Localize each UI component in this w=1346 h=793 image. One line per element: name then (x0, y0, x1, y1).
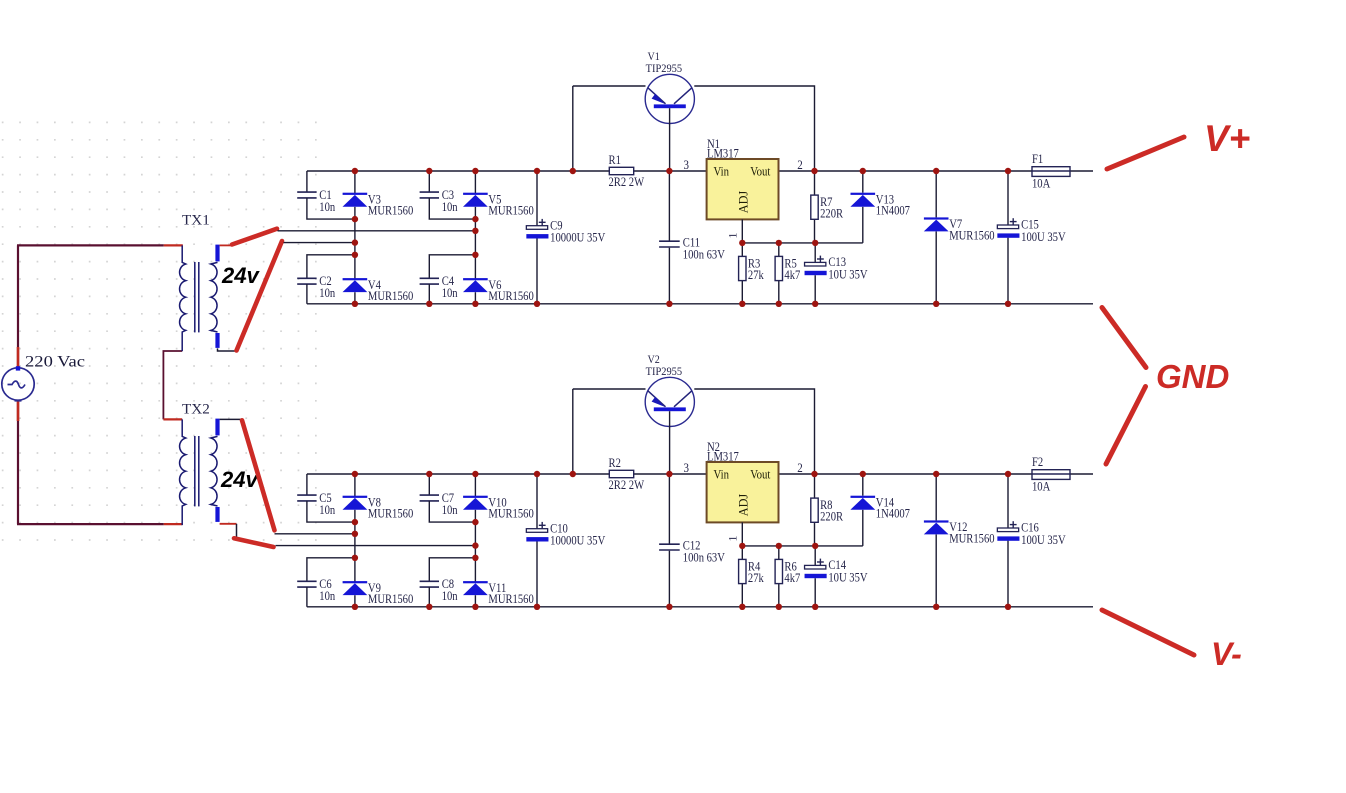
svg-text:10000U 35V: 10000U 35V (550, 534, 605, 548)
svg-text:27k: 27k (748, 571, 765, 585)
wire C2 bottom lead (306, 284, 308, 304)
annotation stroke TX1 top to upper wire (232, 229, 277, 245)
svg-text:100n 63V: 100n 63V (683, 550, 725, 564)
wire TX1-TX2 primary interconnect (163, 351, 182, 419)
svg-text:F2: F2 (1032, 455, 1043, 469)
resistor R6 4k7 (775, 559, 800, 585)
svg-text:10n: 10n (319, 503, 335, 517)
transistor V2 TIP2955 (645, 353, 694, 474)
wire red segment above AC source (17, 347, 20, 368)
wire C8 top lead from bridge (429, 558, 475, 582)
svg-text:10n: 10n (442, 286, 458, 300)
svg-text:10000U 35V: 10000U 35V (550, 231, 605, 245)
svg-text:LM317: LM317 (707, 449, 739, 463)
diode V8 MUR1560 (343, 496, 414, 521)
annotation stroke to V- (1102, 610, 1194, 655)
svg-text:10A: 10A (1032, 177, 1050, 191)
capacitor C11 100n 63V (659, 236, 725, 262)
wire red segment at TX1 primary input (164, 244, 183, 246)
wire bottom rail channel 1 (307, 303, 1093, 305)
svg-text:Vout: Vout (750, 467, 771, 481)
diode V10 MUR1560 (463, 496, 534, 521)
wire red segment at TX2 primary input (163, 418, 182, 420)
diode V3 MUR1560 (343, 193, 414, 218)
svg-text:10A: 10A (1032, 480, 1050, 494)
capacitor C2 10n (297, 274, 335, 300)
wire C5 top lead (306, 474, 308, 495)
svg-text:10n: 10n (442, 589, 458, 603)
svg-text:TIP2955: TIP2955 (646, 61, 683, 75)
resistor R5 4k7 (775, 256, 800, 282)
svg-text:220 Vac: 220 Vac (25, 354, 85, 371)
fuse F1 10A (1032, 152, 1070, 190)
wire V13 branch vertical (862, 207, 864, 243)
capacitor C4 10n (420, 274, 458, 300)
wire bridge column right channel 1 (474, 171, 476, 194)
svg-text:TIP2955: TIP2955 (646, 364, 683, 378)
wire R8 leads (814, 474, 816, 498)
svg-text:MUR1560: MUR1560 (368, 592, 413, 606)
wire base lead V2 (669, 411, 671, 474)
annotation stroke GND lower (1106, 387, 1146, 465)
svg-text:2: 2 (797, 158, 803, 172)
capacitor C12 100n 63V (659, 539, 725, 565)
regulator N1 LM317 (684, 137, 803, 239)
wire TX2 secondary top stub (220, 418, 241, 420)
svg-text:100U 35V: 100U 35V (1021, 533, 1066, 547)
wire V14 top lead (862, 474, 864, 496)
wire emitter branch horizontal channel 2 (573, 388, 646, 390)
wire C5 bottom lead to bridge (307, 501, 355, 522)
wire C6 top lead from bridge (307, 558, 355, 582)
wire bridge input upper channel 1 (278, 230, 476, 232)
wire TX1 secondary bottom stub (218, 348, 237, 351)
svg-text:1N4007: 1N4007 (876, 507, 910, 521)
svg-text:24v: 24v (221, 263, 260, 288)
svg-text:100U 35V: 100U 35V (1021, 230, 1066, 244)
secondary lead top of TX1 (blue) (215, 245, 219, 262)
wire TX1 secondary top stub (red) (220, 244, 232, 246)
svg-text:Vin: Vin (714, 164, 730, 178)
wire C1 top lead (306, 171, 308, 192)
wire C7 top lead (428, 474, 430, 495)
capacitor C14 10U 35V (805, 558, 868, 584)
wire C7 bottom lead to bridge (429, 501, 475, 522)
svg-text:10U 35V: 10U 35V (828, 570, 867, 584)
annotation stroke TX2 bottom to lower wire (234, 538, 274, 547)
wire ADJ net horizontal channel 1 (742, 242, 863, 244)
wire C9 leads (536, 171, 538, 226)
secondary lead bottom of TX1 (blue) (215, 333, 219, 348)
svg-text:TX1: TX1 (182, 212, 210, 229)
resistor R4 27k (739, 559, 765, 585)
svg-text:1: 1 (725, 233, 739, 239)
svg-text:10U 35V: 10U 35V (828, 267, 867, 281)
svg-text:220R: 220R (820, 510, 844, 524)
capacitor C13 10U 35V (805, 255, 868, 281)
svg-text:4k7: 4k7 (784, 268, 800, 282)
svg-text:4k7: 4k7 (784, 571, 800, 585)
svg-text:MUR1560: MUR1560 (488, 507, 533, 521)
secondary lead top of TX2 (blue) (215, 419, 219, 436)
svg-text:R1: R1 (609, 153, 621, 167)
annotation stroke TX2 top to upper wire (242, 420, 275, 530)
wire TX2 secondary bottom stub (red) (220, 523, 237, 525)
capacitor C10 10000U 35V (526, 521, 605, 547)
wire C14 leads (814, 546, 816, 566)
wire R6 leads (778, 546, 780, 560)
svg-text:1: 1 (725, 536, 739, 542)
wire bottom rail channel 2 (307, 606, 1093, 608)
wire emitter branch horizontal channel 1 (573, 85, 646, 87)
diode V12 MUR1560 (924, 520, 995, 545)
svg-text:MUR1560: MUR1560 (949, 228, 994, 242)
svg-text:10n: 10n (319, 200, 335, 214)
svg-text:10n: 10n (319, 286, 335, 300)
wire bridge column left channel 2 (354, 474, 356, 497)
svg-text:F1: F1 (1032, 152, 1043, 166)
svg-text:2R2 2W: 2R2 2W (609, 175, 645, 189)
resistor R8 220R (811, 498, 844, 524)
annotation stroke to V+ (1107, 137, 1184, 169)
svg-text:2R2 2W: 2R2 2W (609, 478, 645, 492)
wire C10 leads (536, 474, 538, 529)
svg-text:MUR1560: MUR1560 (488, 204, 533, 218)
wire bridge input upper channel 2 (275, 533, 355, 535)
wire R7 leads (814, 171, 816, 195)
wire emitter branch vertical channel 1 (572, 86, 574, 171)
capacitor C3 10n (420, 188, 458, 214)
svg-text:1N4007: 1N4007 (876, 204, 910, 218)
wire bridge input lower channel 2 (276, 545, 476, 547)
svg-text:R2: R2 (609, 456, 621, 470)
wire ADJ pin down channel 1 (741, 219, 743, 243)
regulator N2 LM317 (684, 440, 803, 542)
wire bridge input lower channel 1 (284, 242, 355, 244)
svg-text:MUR1560: MUR1560 (488, 289, 533, 303)
transformer TX1 (180, 212, 218, 352)
wire emitter branch vertical channel 2 (572, 389, 574, 474)
svg-text:TX2: TX2 (182, 401, 210, 418)
svg-text:ADJ: ADJ (736, 494, 750, 517)
resistor R2 2R2 2W (609, 456, 645, 492)
wire C2 top lead from bridge (307, 255, 355, 278)
svg-text:220R: 220R (820, 207, 844, 221)
svg-text:10n: 10n (442, 503, 458, 517)
svg-text:10n: 10n (442, 200, 458, 214)
diode V14 1N4007 (850, 496, 910, 521)
wire red segment at TX2 primary return (164, 523, 182, 525)
svg-text:Vout: Vout (750, 164, 771, 178)
svg-text:MUR1560: MUR1560 (368, 204, 413, 218)
diode V5 MUR1560 (463, 193, 534, 218)
capacitor C15 100U 35V (997, 218, 1065, 244)
svg-text:LM317: LM317 (707, 146, 739, 160)
diode V11 MUR1560 (463, 581, 534, 606)
svg-text:GND: GND (1156, 358, 1229, 395)
annotation stroke GND upper (1102, 308, 1146, 368)
svg-text:27k: 27k (748, 268, 765, 282)
wire R4 leads (741, 546, 743, 560)
junction dots channel 2 (352, 471, 1012, 610)
wire C3 bottom lead to bridge (429, 198, 475, 219)
svg-text:MUR1560: MUR1560 (949, 531, 994, 545)
resistor R7 220R (811, 195, 844, 221)
capacitor C6 10n (297, 577, 335, 603)
wire V13 top lead (862, 171, 864, 193)
wire C13 leads (814, 243, 816, 263)
diode V13 1N4007 (850, 193, 910, 218)
svg-text:100n 63V: 100n 63V (683, 247, 725, 261)
svg-text:MUR1560: MUR1560 (488, 592, 533, 606)
diode V4 MUR1560 (343, 278, 414, 303)
wire ADJ pin down channel 2 (741, 522, 743, 546)
wire C8 bottom lead (428, 587, 430, 607)
svg-text:24v: 24v (220, 467, 259, 492)
wire C3 top lead (428, 171, 430, 192)
svg-text:10n: 10n (319, 589, 335, 603)
fuse F2 10A (1032, 455, 1070, 493)
wire collector branch channel 2 (694, 389, 814, 474)
wire top rail channel 1 (307, 170, 1093, 172)
capacitor C16 100U 35V (997, 521, 1065, 547)
diode V6 MUR1560 (463, 278, 534, 303)
svg-text:2: 2 (797, 461, 803, 475)
wire R5 leads (778, 243, 780, 257)
wire C12 leads (668, 474, 670, 544)
wire C6 bottom lead (306, 587, 308, 607)
wire ADJ net horizontal channel 2 (742, 545, 863, 547)
transistor V1 TIP2955 (645, 50, 694, 171)
wire bridge column right channel 2 (474, 474, 476, 497)
wire TX2 secondary bottom stub vertical (236, 524, 238, 539)
diode V7 MUR1560 (924, 217, 995, 242)
annotation stroke TX1 bottom to lower wire (237, 241, 283, 351)
wire C16 leads (1007, 474, 1009, 528)
svg-text:Vin: Vin (714, 467, 730, 481)
wire V7 leads (935, 171, 937, 217)
capacitor C9 10000U 35V (526, 218, 605, 244)
AC source 220 Vac (2, 354, 85, 401)
svg-text:3: 3 (684, 461, 690, 475)
wire R3 leads (741, 243, 743, 257)
wire base lead V1 (669, 108, 671, 171)
transformer TX2 (180, 401, 218, 526)
resistor R3 27k (739, 256, 765, 282)
svg-text:3: 3 (684, 158, 690, 172)
secondary lead bottom of TX2 (blue) (215, 507, 219, 522)
svg-text:V-: V- (1211, 636, 1242, 672)
wire C15 leads (1007, 171, 1009, 225)
diode V9 MUR1560 (343, 581, 414, 606)
wire bridge column left channel 1 (354, 171, 356, 194)
wire C1 bottom lead to bridge (307, 198, 355, 219)
svg-text:MUR1560: MUR1560 (368, 289, 413, 303)
svg-text:MUR1560: MUR1560 (368, 507, 413, 521)
wire primary loop top horizontal (17, 244, 164, 246)
wire C4 top lead from bridge (429, 255, 475, 278)
capacitor C1 10n (297, 188, 335, 214)
wire V12 leads (935, 474, 937, 520)
capacitor C8 10n (420, 577, 458, 603)
wire red segment below AC source (17, 400, 20, 422)
resistor R1 2R2 2W (609, 153, 645, 189)
wire C11 leads (668, 171, 670, 241)
svg-text:V+: V+ (1204, 118, 1250, 159)
capacitor C7 10n (420, 491, 458, 517)
capacitor C5 10n (297, 491, 335, 517)
junction dots channel 1 (352, 168, 1012, 307)
wire primary loop bottom horizontal (17, 523, 164, 525)
wire C4 bottom lead (428, 284, 430, 304)
wire V14 branch vertical (862, 510, 864, 546)
svg-text:ADJ: ADJ (736, 191, 750, 214)
wire top rail channel 2 (307, 473, 1093, 475)
wire primary loop left vertical (17, 245, 19, 368)
wire collector branch channel 1 (694, 86, 814, 171)
